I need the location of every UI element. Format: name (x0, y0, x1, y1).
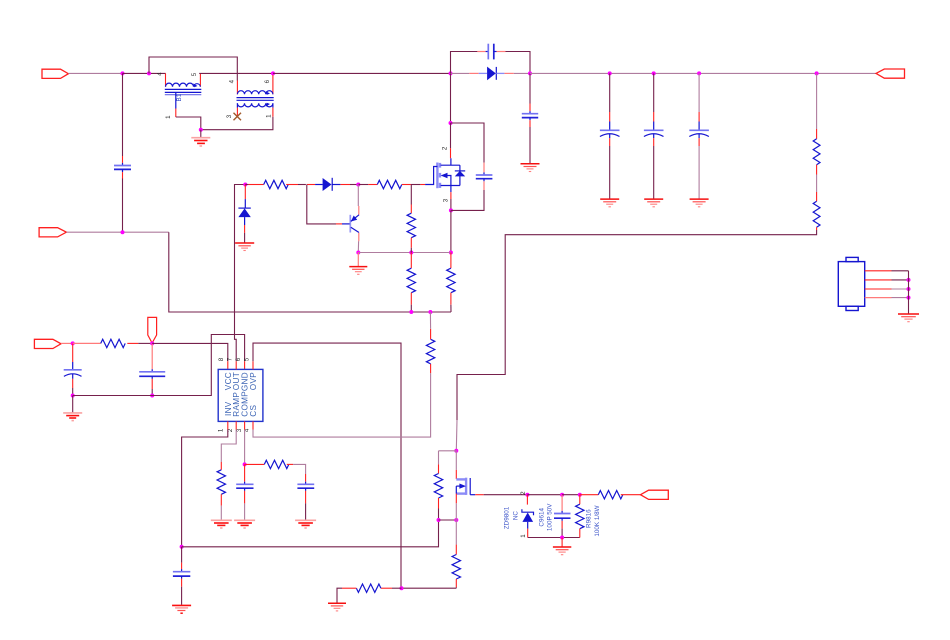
wire VCC ground stub (72, 396, 74, 413)
resistor R output series (580, 491, 641, 499)
svg-text:4: 4 (157, 72, 164, 76)
node junction at 273,73 (271, 71, 275, 75)
pin number 4 of T1 (157, 72, 164, 76)
svg-text:5: 5 (244, 357, 251, 361)
svg-text:CS: CS (249, 404, 258, 416)
node junction at 358.3,184.5 (356, 183, 360, 187)
port P1 (input line) (42, 69, 68, 78)
pin number 5 of U1 (244, 357, 251, 361)
wire rail T1 pin5 to T2 pin6 (199, 72, 273, 74)
snubber capacitor loop over diode (451, 44, 531, 74)
svg-text:1: 1 (265, 114, 272, 118)
pin number 2 of Q1 (441, 146, 448, 150)
svg-text:4: 4 (229, 79, 236, 83)
label ZD9801 NC (504, 506, 520, 529)
wire drain stub (450, 123, 452, 158)
wire Q2 gate to clamp node (475, 494, 527, 496)
resistor R comp (245, 460, 306, 474)
transformer T1 (165, 73, 202, 117)
resistor R ramp (217, 462, 225, 520)
capacitor at bottom left (173, 547, 190, 605)
svg-text:5: 5 (191, 72, 198, 76)
electrolytic capacitor C out3 (689, 73, 709, 198)
pin number 3 of U1 (236, 428, 243, 432)
node junction at 201,129.7 (199, 128, 203, 132)
resistor R cs (426, 312, 434, 373)
port P2 (input neutral) (39, 228, 66, 237)
ground at bottom middle (328, 603, 346, 611)
zener diode ZD9801 (522, 495, 534, 538)
wire J1 common down (908, 271, 910, 314)
transformer T2 (237, 75, 274, 117)
svg-text:3: 3 (442, 198, 449, 202)
resistor R VCC series (73, 339, 153, 347)
pin number 1 of ZD9801 (520, 534, 527, 538)
wire INV pin1 to bottom rail (182, 421, 228, 546)
svg-text:R9816: R9816 (586, 509, 593, 528)
svg-text:6: 6 (235, 357, 242, 361)
pin number 5 of T1 (191, 72, 198, 76)
capacitor C9614 (554, 495, 571, 538)
node junction at 450.5,123 (449, 121, 453, 125)
svg-text:3: 3 (226, 114, 233, 118)
wire P1 to junction (68, 72, 122, 74)
node junction at 245.3,184.5 (243, 183, 247, 187)
svg-text:ZD9801: ZD9801 (504, 506, 511, 529)
svg-text:2: 2 (441, 146, 448, 150)
resistor R divider upper at x=411.3 (407, 185, 415, 253)
pin number 6 of U1 (235, 357, 242, 361)
pin number 8 of U1 (218, 357, 225, 361)
svg-text:3: 3 (236, 428, 243, 432)
node junction at 562.1,537.5 (560, 536, 564, 540)
pin number 2 of ZD9801 (520, 491, 527, 495)
wire VCC node to IC pin8 (152, 343, 228, 369)
wire loop from 149 to T2 pin4 (149, 57, 237, 81)
port P4 (output) (876, 69, 905, 78)
node junction at 450.5,73 (449, 71, 453, 75)
resistor R gate rail 1 (245, 180, 306, 188)
transistor Q2 small MOSFET (456, 478, 475, 495)
no-connect X on T2 pin3 (234, 113, 242, 121)
node junction at 527.4,494.7 (525, 493, 529, 497)
capacitor at VCC node (139, 343, 165, 395)
resistor R sense 2 at x=450.9 (447, 253, 455, 313)
ground below Q3 (349, 253, 367, 275)
wire between 438.5 and 456.3 at y=520 (439, 519, 457, 521)
resistor R9816 (576, 495, 584, 538)
capacitor C comp (236, 464, 253, 520)
node junction at 579.8,494.7 (578, 493, 582, 497)
wire output rail to port (530, 72, 876, 74)
wire light to Q2 drain node (455, 420, 458, 451)
svg-text:6: 6 (264, 79, 271, 83)
wire clamp node to C9614 (527, 494, 562, 496)
wire Q1 source stub (450, 192, 452, 210)
transistor Q1 power MOSFET (425, 158, 465, 192)
ground below VCC cap (63, 413, 82, 421)
node junction at 401.5,588.2 (400, 586, 404, 590)
wire C9614 node to R9816 (562, 494, 580, 496)
power port arrow at VCC node (148, 317, 157, 343)
svg-text:OVP: OVP (249, 372, 258, 390)
connector J1 pin 2 wire (865, 279, 909, 281)
ground below zener (235, 243, 254, 251)
node junction at 72.7,343.4 (71, 341, 75, 345)
resistor R load lower (813, 175, 820, 231)
wire ground return y=395.5 (73, 335, 245, 396)
node junction at 411.3,312 (409, 310, 413, 314)
ground below C out2 (644, 199, 663, 207)
node junction at 411.3,252.5 (409, 251, 413, 255)
wire rail to T1 pin4 (123, 72, 166, 74)
ground below capacitor x=530 (521, 164, 540, 172)
ground below C out3 (690, 199, 709, 207)
capacitor across line at x=122.5 (114, 73, 131, 232)
capacitor C comp 2 (297, 474, 314, 520)
ground below C comp (234, 520, 255, 528)
wire rail T2 pin6 to snubber node (273, 72, 451, 74)
wire OVP pin5 long loop (253, 343, 401, 588)
ground below T1/T2 (191, 130, 210, 146)
label C9614 100P 50V (538, 503, 553, 531)
wire P3 to node (61, 342, 73, 344)
zener diode at gate rail (238, 185, 250, 243)
svg-text:7: 7 (227, 357, 234, 361)
svg-text:100P 50V: 100P 50V (547, 503, 554, 531)
wire clamp bottom row (528, 537, 580, 539)
node junction at 358.3,252.5 (356, 251, 360, 255)
node junction at 430.4,312 (428, 310, 432, 314)
ground below C out1 (600, 199, 619, 207)
port P5 (feedback output) (641, 490, 669, 499)
svg-text:C9614: C9614 (538, 508, 545, 527)
pin number 4 of U1 (243, 428, 250, 432)
node junction at 181.6,546.8 (180, 545, 184, 549)
node junction at 122.5,73 (121, 71, 125, 75)
resistor R load upper (813, 73, 820, 174)
electrolytic capacitor C out1 (600, 73, 620, 198)
wire load chain to Q2 drain node (457, 230, 817, 420)
wire Q2 drain node to R pullup (439, 450, 457, 452)
node junction at 152.2,395.5 (150, 394, 154, 398)
node junction at 244.6,464.4 (243, 462, 247, 466)
wire y=588.2 row (402, 587, 457, 589)
connector J1 pin 3 wire (865, 288, 909, 290)
wire P2 to corner (66, 231, 168, 233)
svg-text:2: 2 (520, 491, 527, 495)
wire CS pin4 (253, 373, 431, 437)
diode D2 on gate rail (307, 178, 359, 191)
wire bottom rail y=546.8 (182, 520, 439, 547)
svg-text:1: 1 (520, 534, 527, 538)
node junction at 122,232 (121, 230, 125, 234)
node junction at 699.1,73 (697, 71, 701, 75)
wire RAMP pin2 (221, 421, 236, 462)
pin number 2 of U1 (227, 428, 234, 432)
transistor Q3 PNP clamp (350, 185, 359, 253)
pin number 3 of T2 (226, 114, 233, 118)
wire corner down and across at y=312 (169, 232, 451, 312)
wire Q2 source down (455, 494, 457, 520)
node junction at 562.1,494.7 (560, 493, 564, 497)
wire Q1 source down to sense node (450, 210, 452, 252)
wire T1 pin1 to ground node (176, 117, 201, 130)
pin number 6 of T2 (264, 79, 271, 83)
node junction at 450.9,210.4 (449, 208, 453, 212)
node junction at 908.5,297.6 (907, 296, 911, 300)
svg-text:1: 1 (165, 115, 172, 119)
pin number 3 of Q1 (442, 198, 449, 202)
node junction at 438.5,520 (437, 518, 441, 522)
wire sense line y=252.5 (358, 252, 451, 254)
node junction at 908.5,279.9 (907, 278, 911, 282)
connector J1 (838, 257, 864, 310)
capacitor across Q1 drain-source (451, 123, 493, 210)
ground below bottom left cap (172, 605, 191, 613)
svg-text:100K 1/8W: 100K 1/8W (594, 505, 601, 536)
pin number 1 of T2 (265, 114, 272, 118)
gate drive rail from OUT pin (235, 185, 246, 362)
electrolytic capacitor C out2 (644, 73, 664, 198)
wire COMP pin3 (244, 421, 246, 464)
node junction at 908.5,289 (907, 287, 911, 291)
node junction at 530,73 (528, 71, 532, 75)
label R9816 100K 1/8W (586, 505, 601, 536)
node junction at 609.7,73 (608, 71, 612, 75)
wire OUT pin7 stub (235, 361, 237, 369)
node junction at 653.7,73 (652, 71, 656, 75)
node junction at 456.3,520 (454, 518, 458, 522)
resistor R to ground at bottom (337, 584, 402, 603)
ground below R ramp (211, 520, 232, 528)
node junction at 152.2,343.4 (150, 341, 154, 345)
ground below J1 (898, 314, 919, 322)
pin number 1 of U1 (217, 428, 224, 432)
pin number 7 of U1 (227, 357, 234, 361)
resistor R gate rail 2 (358, 180, 425, 188)
svg-text:1: 1 (217, 428, 224, 432)
ground below C comp 2 (295, 520, 316, 528)
resistor R pullup at x=438.5 (434, 451, 442, 520)
wire Q3 base (307, 185, 350, 224)
wire T2 pin1 to ground node (201, 117, 273, 130)
resistor R below Q2 (452, 520, 460, 588)
node junction at 72.7,395.5 (71, 394, 75, 398)
svg-text:NC: NC (512, 511, 519, 521)
connector J1 pin 4 wire (865, 297, 909, 299)
ground below C9614 (553, 538, 571, 555)
IC U1 controller box (218, 369, 263, 421)
pin number 4 of T2 (229, 79, 236, 83)
node junction at 149,73 (147, 71, 151, 75)
node junction at 816.6,73 (815, 71, 819, 75)
svg-text:8: 8 (218, 357, 225, 361)
capacitor after diode at x=530 (522, 73, 538, 163)
wire snubber node down to Q1 drain (450, 73, 452, 123)
electrolytic capacitor at VCC input (64, 343, 82, 395)
resistor R sense 1 at x=411.3 (407, 253, 415, 313)
wire Q2 drain stub (455, 451, 457, 479)
diode D1 on output rail (451, 67, 531, 81)
node junction at 450.9,252.5 (449, 251, 453, 255)
node junction at 456.3,450.8 (454, 449, 458, 453)
port P3 (VCC input) (34, 339, 61, 348)
svg-text:B1: B1 (176, 93, 183, 101)
connector J1 pin 1 wire (865, 270, 909, 272)
pin number 1 of T1 (165, 115, 172, 119)
